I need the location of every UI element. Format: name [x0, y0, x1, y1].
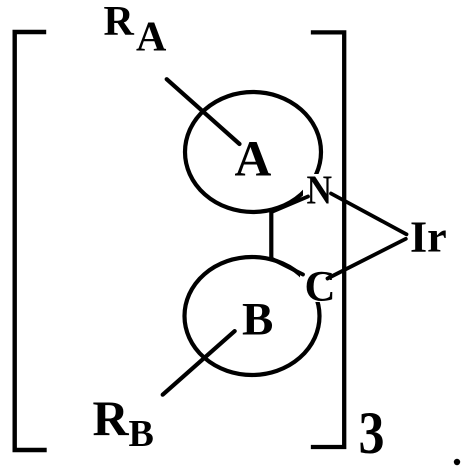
- svg-text:C: C: [305, 263, 336, 310]
- svg-text:B: B: [129, 413, 154, 455]
- svg-text:B: B: [242, 294, 273, 346]
- svg-text:A: A: [136, 15, 167, 61]
- svg-text:R: R: [93, 390, 130, 446]
- svg-text:Ir: Ir: [410, 213, 447, 262]
- svg-text:A: A: [235, 131, 272, 187]
- svg-text:N: N: [307, 166, 333, 212]
- svg-text:R: R: [104, 0, 135, 45]
- svg-text:3: 3: [359, 400, 385, 466]
